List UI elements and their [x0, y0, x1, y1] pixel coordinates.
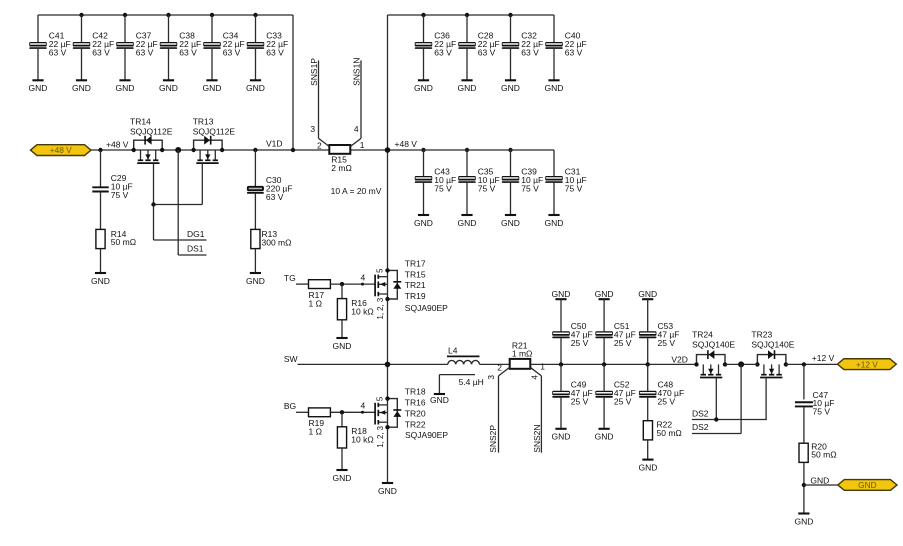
svg-text:63 V: 63 V	[179, 48, 197, 58]
svg-text:SQJA90EP: SQJA90EP	[405, 430, 448, 440]
svg-text:GND: GND	[333, 473, 352, 483]
svg-text:V1D: V1D	[266, 139, 283, 149]
svg-text:63 V: 63 V	[49, 48, 67, 58]
svg-text:GND: GND	[458, 83, 477, 93]
svg-text:63 V: 63 V	[478, 48, 496, 58]
svg-text:GND: GND	[29, 83, 48, 93]
svg-text:50 mΩ: 50 mΩ	[811, 450, 836, 460]
svg-text:63 V: 63 V	[565, 48, 583, 58]
svg-text:TR23: TR23	[751, 329, 772, 339]
svg-text:25 V: 25 V	[614, 338, 632, 348]
svg-text:10 A = 20 mV: 10 A = 20 mV	[331, 186, 382, 196]
svg-text:63 V: 63 V	[92, 48, 110, 58]
svg-text:TR20: TR20	[405, 408, 426, 418]
svg-text:1, 2, 3: 1, 2, 3	[376, 298, 385, 320]
svg-text:1: 1	[540, 362, 545, 372]
svg-text:GND: GND	[501, 218, 520, 228]
svg-text:GND: GND	[638, 462, 657, 472]
svg-text:+12 V: +12 V	[856, 359, 878, 369]
svg-text:TR13: TR13	[193, 116, 214, 126]
svg-text:GND: GND	[378, 486, 397, 496]
svg-text:SNS2N: SNS2N	[532, 424, 542, 452]
svg-text:GND: GND	[203, 83, 222, 93]
svg-text:SQJQ140E: SQJQ140E	[692, 340, 735, 350]
svg-text:TR24: TR24	[692, 329, 713, 339]
svg-text:2 mΩ: 2 mΩ	[331, 163, 352, 173]
svg-text:75 V: 75 V	[478, 183, 496, 193]
svg-text:63 V: 63 V	[223, 48, 241, 58]
svg-text:L4: L4	[448, 345, 458, 355]
svg-text:TR14: TR14	[130, 116, 151, 126]
svg-text:+48 V: +48 V	[50, 145, 72, 155]
svg-text:V2D: V2D	[671, 354, 688, 364]
svg-text:GND: GND	[552, 432, 571, 442]
svg-text:10 kΩ: 10 kΩ	[351, 306, 373, 316]
svg-text:SNS2P: SNS2P	[488, 425, 498, 453]
svg-text:GND: GND	[858, 480, 876, 490]
svg-text:4: 4	[530, 375, 540, 380]
svg-text:300 mΩ: 300 mΩ	[262, 237, 292, 247]
svg-text:3: 3	[310, 124, 315, 134]
svg-text:GND: GND	[72, 83, 91, 93]
svg-text:25 V: 25 V	[614, 397, 632, 407]
svg-text:GND: GND	[430, 395, 449, 405]
svg-text:25 V: 25 V	[658, 397, 676, 407]
svg-text:DS2: DS2	[692, 409, 709, 419]
svg-text:4: 4	[354, 124, 359, 134]
svg-text:GND: GND	[91, 276, 110, 286]
svg-text:GND: GND	[414, 83, 433, 93]
svg-text:63 V: 63 V	[136, 48, 154, 58]
svg-text:SNS1N: SNS1N	[352, 58, 362, 86]
svg-text:TR15: TR15	[405, 269, 426, 279]
svg-text:+12 V: +12 V	[812, 353, 835, 363]
svg-text:GND: GND	[333, 341, 352, 351]
svg-text:GND: GND	[595, 432, 614, 442]
svg-text:GND: GND	[501, 83, 520, 93]
svg-text:1 mΩ: 1 mΩ	[512, 349, 533, 359]
svg-text:GND: GND	[545, 218, 564, 228]
svg-text:SQJQ140E: SQJQ140E	[751, 340, 794, 350]
svg-text:5: 5	[375, 268, 384, 273]
svg-text:25 V: 25 V	[658, 338, 676, 348]
svg-text:TG: TG	[284, 273, 296, 283]
svg-text:SQJQ112E: SQJQ112E	[193, 127, 236, 137]
svg-text:3: 3	[486, 375, 496, 380]
svg-text:+48 V: +48 V	[395, 139, 418, 149]
svg-text:SQJA90EP: SQJA90EP	[405, 303, 448, 313]
svg-text:1 Ω: 1 Ω	[309, 298, 322, 308]
svg-text:BG: BG	[284, 401, 296, 411]
svg-text:GND: GND	[246, 276, 265, 286]
svg-text:4: 4	[361, 401, 366, 411]
svg-text:75 V: 75 V	[111, 190, 129, 200]
svg-text:TR16: TR16	[405, 398, 426, 408]
svg-text:63 V: 63 V	[521, 48, 539, 58]
svg-text:GND: GND	[414, 218, 433, 228]
svg-text:GND: GND	[159, 83, 178, 93]
svg-text:2: 2	[497, 362, 502, 372]
svg-text:50 mΩ: 50 mΩ	[111, 237, 136, 247]
svg-text:1: 1	[360, 140, 365, 150]
svg-text:63 V: 63 V	[266, 192, 284, 202]
svg-text:25 V: 25 V	[571, 338, 589, 348]
svg-text:GND: GND	[246, 83, 265, 93]
svg-text:GND: GND	[116, 83, 135, 93]
svg-text:4: 4	[361, 272, 366, 282]
svg-text:63 V: 63 V	[434, 48, 452, 58]
svg-text:TR19: TR19	[405, 291, 426, 301]
svg-text:1, 2, 3: 1, 2, 3	[376, 426, 385, 448]
svg-text:DG1: DG1	[187, 229, 205, 239]
svg-text:2: 2	[317, 140, 322, 150]
svg-text:25 V: 25 V	[571, 397, 589, 407]
svg-text:TR22: TR22	[405, 419, 426, 429]
svg-text:SQJQ112E: SQJQ112E	[130, 127, 173, 137]
svg-text:TR21: TR21	[405, 280, 426, 290]
svg-text:75 V: 75 V	[521, 183, 539, 193]
svg-text:GND: GND	[545, 83, 564, 93]
svg-text:GND: GND	[638, 289, 657, 299]
svg-text:GND: GND	[794, 516, 813, 526]
svg-text:1 Ω: 1 Ω	[309, 427, 322, 437]
svg-text:75 V: 75 V	[813, 407, 831, 417]
svg-text:10 kΩ: 10 kΩ	[351, 435, 373, 445]
svg-text:SW: SW	[284, 354, 298, 364]
svg-text:+48 V: +48 V	[106, 139, 129, 149]
svg-text:GND: GND	[595, 289, 614, 299]
svg-text:5: 5	[375, 396, 384, 401]
svg-text:GND: GND	[458, 218, 477, 228]
svg-text:75 V: 75 V	[565, 183, 583, 193]
svg-text:63 V: 63 V	[266, 48, 284, 58]
svg-text:SNS1P: SNS1P	[309, 58, 319, 86]
svg-text:TR17: TR17	[405, 258, 426, 268]
svg-text:TR18: TR18	[405, 387, 426, 397]
svg-text:5.4 µH: 5.4 µH	[459, 377, 484, 387]
svg-text:DS1: DS1	[187, 244, 204, 254]
svg-text:GND: GND	[810, 475, 829, 485]
svg-text:GND: GND	[552, 289, 571, 299]
svg-text:75 V: 75 V	[434, 183, 452, 193]
svg-text:DS2: DS2	[692, 422, 709, 432]
svg-text:50 mΩ: 50 mΩ	[657, 428, 682, 438]
